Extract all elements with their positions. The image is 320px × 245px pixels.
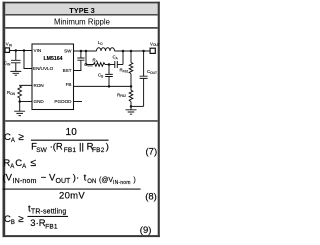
svg-text:EN/UVLO: EN/UVLO <box>33 66 54 71</box>
svg-text:RFB1: RFB1 <box>120 68 129 74</box>
wire output ground stem <box>130 106 132 109</box>
resistor RFB1 <box>129 63 133 74</box>
capacitor CIN plates <box>11 60 21 63</box>
resistor RA <box>94 63 106 67</box>
svg-text:FB: FB <box>66 82 72 87</box>
schematic labels <box>4 40 160 104</box>
svg-text:(@V: (@V <box>99 177 113 184</box>
wire CA to riser <box>117 64 123 66</box>
svg-text:VIN: VIN <box>6 42 13 48</box>
svg-text:(9): (9) <box>140 225 152 236</box>
node output ground junction <box>130 105 133 108</box>
wire PGOOD stub <box>74 101 83 103</box>
equation 7 fraction bar <box>31 139 109 142</box>
terminal VIN square <box>5 48 10 53</box>
svg-text:(8): (8) <box>145 192 157 203</box>
capacitor CIN stem top <box>15 51 17 61</box>
ground CIN <box>10 71 21 75</box>
svg-text:LO: LO <box>98 40 103 46</box>
svg-text:SW: SW <box>36 147 47 154</box>
capacitor COUT plates <box>140 76 148 78</box>
wire riser up to SW rail <box>122 51 124 65</box>
svg-text:RON: RON <box>7 90 16 96</box>
svg-text:CB: CB <box>98 73 103 79</box>
resistor RFB1 stem bottom <box>130 74 132 87</box>
svg-text:TYPE 3: TYPE 3 <box>69 6 94 15</box>
svg-text:VIN: VIN <box>34 48 42 53</box>
node RA-CB junction <box>108 63 111 66</box>
node CIN junction <box>15 49 17 52</box>
svg-text:RA: RA <box>93 58 99 64</box>
svg-text:VOUT: VOUT <box>150 41 160 47</box>
capacitor CBST stem top <box>80 51 82 58</box>
wire FB <box>74 85 132 87</box>
capacitor CIN stem bottom <box>15 63 17 72</box>
resistor RFB2 stem top <box>130 86 132 90</box>
table outer frame <box>3 2 161 237</box>
svg-text:TR-settling: TR-settling <box>31 209 67 216</box>
svg-text:·(R: ·(R <box>50 141 63 152</box>
svg-text:): ) <box>106 141 109 152</box>
wire ripple branch down from SW <box>86 51 94 65</box>
capacitor COUT stem top <box>143 51 145 76</box>
equation 8 fraction bar <box>3 188 141 191</box>
svg-text:BST: BST <box>63 68 72 73</box>
svg-text:10: 10 <box>66 127 78 138</box>
svg-text:LM5164: LM5164 <box>43 56 62 62</box>
wire EN/UVLO branch <box>24 51 32 69</box>
wire GND pin <box>20 101 32 103</box>
svg-text:CA: CA <box>113 55 119 61</box>
node COUT top junction <box>142 50 145 53</box>
svg-text:GND: GND <box>34 99 45 104</box>
node RON-GND junction <box>18 100 21 103</box>
svg-text:FB1: FB1 <box>45 223 58 230</box>
capacitor CB stem to FB line <box>108 77 110 87</box>
equation 9 fraction bar <box>28 215 69 218</box>
svg-text:20mV: 20mV <box>59 191 85 202</box>
wire VIN input <box>10 50 33 52</box>
capacitor COUT stem bottom <box>143 78 145 106</box>
resistor RFB2 <box>129 90 133 101</box>
capacitor CA vertical plates <box>115 61 118 68</box>
svg-text:FB1: FB1 <box>64 147 77 154</box>
inductor LO <box>97 48 115 51</box>
terminal VOUT square <box>150 48 155 53</box>
node CA riser junction <box>122 50 125 53</box>
svg-text:Minimum Ripple: Minimum Ripple <box>54 17 110 26</box>
wire RON bottom <box>19 98 21 111</box>
wire SW output rail <box>74 50 97 52</box>
svg-text:CBST: CBST <box>84 62 93 68</box>
svg-text:3·R: 3·R <box>30 218 45 229</box>
chip U1 LM5164 box <box>32 44 74 110</box>
svg-text:)·: )· <box>73 173 79 184</box>
ground output <box>126 110 137 114</box>
node FB divider junction <box>130 85 133 88</box>
svg-text:− V: − V <box>41 173 56 184</box>
svg-text:PGOOD: PGOOD <box>54 99 72 104</box>
svg-text:OUT: OUT <box>56 178 72 185</box>
svg-text:FB2: FB2 <box>92 147 105 154</box>
capacitor CBST plates <box>77 58 84 60</box>
capacitor CB stem top <box>108 65 110 75</box>
wire COUT bottom to RFB2 bottom <box>131 105 144 107</box>
svg-text:): ) <box>133 177 135 184</box>
svg-text:SW: SW <box>64 48 72 53</box>
svg-text:(7): (7) <box>146 147 158 158</box>
resistor RFB1 stem top <box>130 51 132 63</box>
svg-text:RFB2: RFB2 <box>117 92 126 98</box>
svg-text:IN-nom: IN-nom <box>13 178 37 185</box>
wire CBST to BST pin <box>74 60 81 70</box>
svg-text:IN-nom: IN-nom <box>113 180 131 186</box>
node RFB1 top junction <box>130 50 133 53</box>
node ripple branch junction <box>85 50 88 53</box>
node CB-FB junction <box>108 85 111 88</box>
junction dots <box>15 49 145 107</box>
node CBST junction <box>80 50 83 53</box>
svg-text:(V: (V <box>3 173 13 184</box>
capacitor CB plates <box>105 74 113 76</box>
svg-text:RON: RON <box>34 83 44 88</box>
wire LO to VOUT terminal <box>115 50 151 52</box>
node EN junction <box>23 49 26 52</box>
svg-text:COUT: COUT <box>147 69 157 75</box>
svg-text:CIN: CIN <box>4 61 11 67</box>
resistor RON <box>18 86 22 98</box>
svg-text:ON: ON <box>87 179 96 185</box>
svg-text:t: t <box>84 173 87 184</box>
svg-text:RACA≤: RACA≤ <box>3 157 36 170</box>
resistor RFB2 stem bottom <box>130 102 132 107</box>
ground RON/GND <box>14 111 25 115</box>
wire RA to CB junction and CA <box>105 64 115 66</box>
wire RON pin <box>20 84 32 87</box>
